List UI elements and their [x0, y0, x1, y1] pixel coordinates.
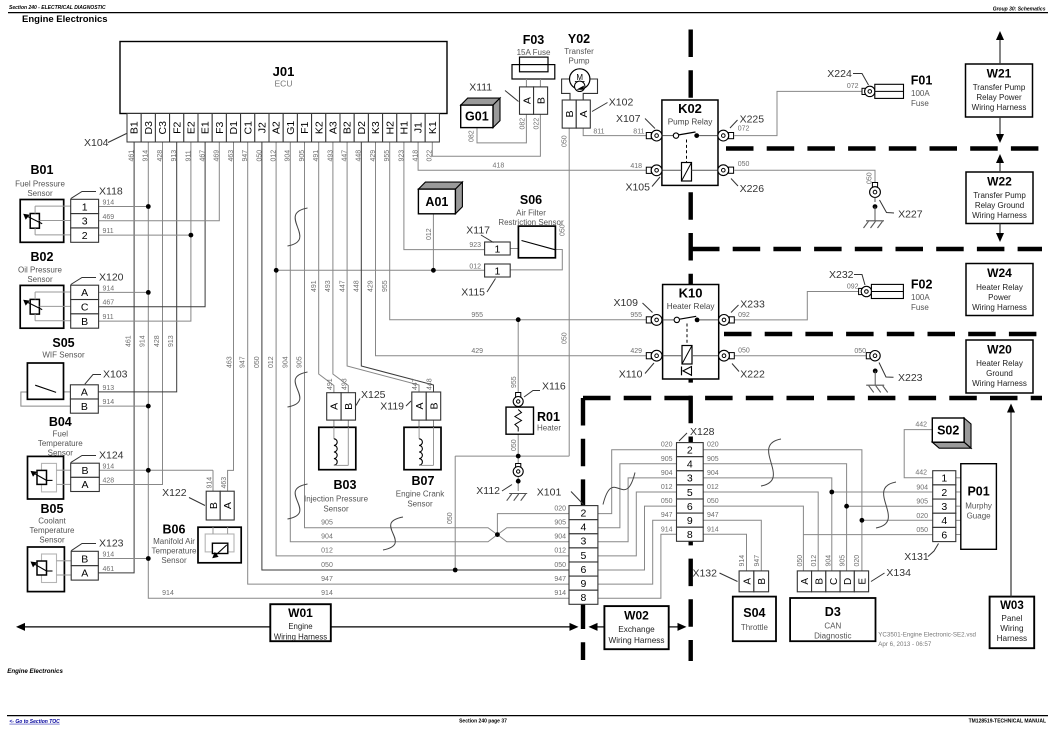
svg-text:905: 905 — [840, 555, 847, 567]
svg-text:B1: B1 — [129, 121, 141, 134]
harness boundary dashed line (vertical, exchange/panel) — [581, 398, 585, 660]
svg-text:X132: X132 — [692, 568, 717, 580]
twisted-pair mark (904/905 columns lower) — [288, 484, 308, 519]
label X225 — [730, 114, 764, 129]
ring terminal X110 — [646, 350, 662, 361]
wire 082 (G01 to X111.A) — [477, 114, 526, 143]
coolant temperature sensor B05 — [28, 547, 72, 592]
label X101 — [537, 487, 584, 505]
svg-text:491: 491 — [313, 150, 320, 162]
svg-text:Transfer Pump: Transfer Pump — [973, 83, 1026, 92]
svg-text:Heater Relay: Heater Relay — [976, 359, 1023, 368]
connector X120 — [71, 285, 99, 328]
svg-text:B: B — [81, 401, 88, 413]
label R01 — [537, 410, 561, 433]
wire labels at X123 — [103, 552, 115, 573]
wire labels at X122 — [207, 477, 229, 489]
svg-text:B04: B04 — [49, 415, 72, 429]
svg-text:X227: X227 — [898, 209, 923, 221]
svg-text:G1: G1 — [285, 121, 297, 135]
connector X118 — [71, 199, 99, 242]
fuse F03 — [512, 33, 555, 87]
svg-text:X224: X224 — [827, 68, 852, 80]
svg-text:050: 050 — [738, 161, 750, 168]
label X110 — [619, 363, 654, 381]
wire 469 (ECU F3 to X118.3) — [99, 142, 220, 221]
svg-text:050: 050 — [562, 135, 569, 147]
svg-text:Sensor: Sensor — [39, 536, 65, 545]
svg-text:E: E — [857, 578, 868, 585]
svg-text:A: A — [81, 479, 88, 491]
connector X101 — [569, 506, 598, 605]
svg-text:914: 914 — [162, 590, 174, 597]
label X226 — [731, 179, 764, 196]
svg-text:022: 022 — [427, 150, 434, 162]
transfer pump Y02 — [562, 69, 598, 100]
svg-text:S05: S05 — [52, 336, 74, 350]
svg-text:Throttle: Throttle — [741, 623, 769, 632]
svg-text:905: 905 — [321, 520, 333, 527]
wire 012 (A01 drop) — [432, 214, 434, 270]
wire label 050 (X102.B) — [562, 135, 569, 344]
twisted-pair mark (904/905 columns mid) — [288, 372, 308, 407]
svg-text:Exchange: Exchange — [618, 625, 655, 634]
svg-text:461: 461 — [126, 335, 133, 347]
svg-text:X122: X122 — [162, 487, 187, 499]
module G01 — [461, 98, 500, 128]
svg-text:5: 5 — [581, 550, 587, 562]
connector X128 — [677, 443, 704, 542]
wire label 092 (X232) — [847, 283, 859, 290]
twisted-pair mark (X128 to gauge upper) — [761, 439, 781, 486]
wire labels bottom bus — [321, 520, 333, 598]
heater R01 — [506, 407, 534, 434]
pump relay K02 — [662, 100, 718, 185]
ring terminal X109 — [646, 315, 662, 326]
svg-text:Heater Relay: Heater Relay — [667, 302, 716, 311]
svg-text:S04: S04 — [743, 606, 765, 620]
connector X125 — [327, 393, 356, 420]
svg-text:3: 3 — [581, 536, 587, 548]
svg-text:012: 012 — [661, 484, 673, 491]
svg-text:947: 947 — [242, 150, 249, 162]
wire 448 (ECU D2 to X119.B) — [361, 142, 433, 392]
svg-text:F03: F03 — [523, 33, 545, 47]
svg-text:A: A — [742, 578, 753, 585]
svg-text:904: 904 — [554, 534, 566, 541]
wire label 050 (X226) — [738, 161, 750, 168]
svg-text:461: 461 — [129, 150, 136, 162]
svg-text:X110: X110 — [619, 369, 643, 381]
svg-text:X117: X117 — [466, 225, 490, 237]
ring terminal X223 — [866, 351, 880, 361]
wire 442 (S02 to P01.1) — [904, 430, 933, 478]
wire label 955 (run) — [471, 312, 483, 319]
ring terminal X116 — [513, 393, 523, 407]
svg-text:914: 914 — [661, 526, 673, 533]
wire 428 (ECU C3 to X124.A) — [99, 142, 162, 485]
svg-text:B: B — [81, 465, 88, 477]
harness boundary dashed line (horizontal, pump relay power) — [726, 146, 1042, 150]
svg-text:012: 012 — [426, 228, 433, 240]
svg-text:911: 911 — [103, 228, 114, 235]
label X128 — [679, 426, 715, 441]
svg-text:Wiring Harness: Wiring Harness — [972, 103, 1027, 112]
wire label 418 (K02) — [630, 163, 642, 170]
svg-text:092: 092 — [847, 283, 859, 290]
svg-text:082: 082 — [469, 130, 476, 142]
svg-text:B: B — [757, 578, 768, 585]
svg-text:B07: B07 — [412, 474, 435, 488]
svg-text:G01: G01 — [465, 110, 489, 124]
wire labels at P01 — [916, 485, 928, 535]
svg-text:Fuse: Fuse — [911, 99, 929, 108]
svg-text:914: 914 — [207, 477, 214, 489]
wire label 955 (R01 feed) — [511, 376, 518, 388]
svg-text:Wiring Harness: Wiring Harness — [972, 379, 1027, 388]
svg-text:YC3501-Engine Electronic-SE2.v: YC3501-Engine Electronic-SE2.vsd — [878, 632, 976, 639]
wire labels at X128 left — [661, 442, 673, 534]
oil pressure sensor B02 — [20, 285, 70, 328]
svg-text:467: 467 — [200, 150, 207, 162]
wire stub X117 to S06 — [510, 248, 518, 250]
svg-text:050: 050 — [554, 562, 566, 569]
svg-text:418: 418 — [413, 150, 420, 162]
svg-text:100A: 100A — [911, 293, 930, 302]
label B02 — [18, 250, 63, 284]
svg-text:463: 463 — [227, 356, 234, 368]
fuel temperature sensor B04 — [28, 456, 71, 499]
wire label 082 (G01) — [469, 130, 476, 142]
label S05 — [42, 336, 85, 360]
twisted-pair mark (X101-X128 risers) — [603, 473, 635, 505]
ground X223 — [866, 385, 888, 392]
svg-text:914: 914 — [140, 335, 147, 347]
wire labels at X134 — [797, 555, 861, 567]
label X224 — [827, 68, 868, 85]
svg-text:X116: X116 — [542, 381, 566, 393]
WIF sensor S05 — [27, 363, 63, 399]
svg-text:914: 914 — [554, 590, 566, 597]
wire X227 drop — [874, 198, 876, 221]
svg-text:J01: J01 — [273, 64, 295, 79]
svg-text:914: 914 — [143, 150, 150, 162]
ring terminal X222 — [719, 350, 735, 361]
svg-text:C: C — [81, 301, 89, 313]
svg-text:X112: X112 — [476, 485, 500, 497]
wire 467 (ECU E1 to X120.C) — [99, 142, 206, 307]
harness box W24 — [966, 264, 1033, 316]
svg-text:<- Go to Section TOC: <- Go to Section TOC — [9, 719, 60, 725]
svg-text:020: 020 — [554, 505, 566, 512]
svg-text:461: 461 — [103, 566, 115, 573]
svg-text:Wiring Harness: Wiring Harness — [274, 633, 327, 642]
svg-text:914: 914 — [103, 399, 115, 406]
svg-text:8: 8 — [581, 592, 587, 604]
ring terminal X112 — [513, 464, 523, 477]
svg-text:905: 905 — [554, 520, 566, 527]
svg-text:092: 092 — [738, 312, 750, 319]
svg-text:914: 914 — [103, 285, 115, 292]
svg-text:Coolant: Coolant — [38, 517, 66, 526]
svg-text:923: 923 — [398, 150, 405, 162]
svg-text:947: 947 — [240, 356, 247, 368]
wire 022 (ECU K1 to X111.B) — [432, 114, 540, 156]
label X131 — [904, 544, 938, 564]
wire label 050 (X223) — [854, 348, 866, 355]
svg-text:CAN: CAN — [824, 622, 841, 631]
page header — [8, 5, 1048, 25]
svg-text:811: 811 — [593, 129, 604, 136]
svg-text:913: 913 — [168, 335, 175, 347]
svg-text:Engine Electronics: Engine Electronics — [22, 14, 108, 25]
svg-text:904: 904 — [661, 470, 673, 477]
svg-text:904: 904 — [282, 356, 289, 368]
svg-text:429: 429 — [370, 150, 377, 162]
harness arrow W21 up — [996, 31, 1004, 64]
connector X132 — [739, 571, 769, 592]
svg-text:B05: B05 — [41, 502, 64, 516]
svg-text:947: 947 — [554, 576, 566, 583]
svg-text:491: 491 — [311, 280, 318, 292]
svg-text:050: 050 — [707, 498, 719, 505]
svg-text:X123: X123 — [99, 538, 124, 550]
ring terminal X107 — [646, 130, 662, 141]
svg-text:6: 6 — [687, 501, 693, 513]
wire labels at X119 — [412, 378, 433, 390]
svg-text:469: 469 — [103, 214, 115, 221]
svg-text:Fuel Pressure: Fuel Pressure — [15, 180, 65, 189]
label X227 — [880, 200, 923, 221]
label S06 — [498, 193, 564, 227]
connector X131 pin stack — [933, 471, 956, 542]
drawing source note — [878, 632, 976, 648]
throttle S04 — [733, 597, 776, 642]
svg-text:050: 050 — [560, 224, 567, 236]
wire 904 (ECU G1 to X101 pin 3) — [290, 142, 569, 542]
svg-text:X111: X111 — [469, 82, 492, 94]
harness box W21 — [966, 64, 1033, 117]
svg-text:A: A — [81, 387, 88, 399]
wire column labels (463 947 050 012 904 905) — [227, 356, 304, 368]
twisted-pair mark (904/905 columns upper) — [288, 208, 308, 246]
heater relay K10 — [663, 285, 719, 380]
svg-text:X102: X102 — [609, 97, 634, 109]
svg-text:A: A — [578, 111, 590, 118]
wire S05 loop to X103.B — [21, 392, 71, 406]
wire label 442 upper — [915, 422, 927, 429]
label X103 — [85, 369, 128, 385]
svg-text:Sensor: Sensor — [323, 505, 349, 514]
wire labels at X103 — [103, 385, 115, 406]
svg-text:050: 050 — [661, 498, 673, 505]
label X118 — [71, 186, 123, 199]
twisted-pair mark (gauge feed) — [876, 482, 896, 528]
svg-text:Relay Power: Relay Power — [976, 93, 1022, 102]
svg-text:913: 913 — [171, 150, 178, 162]
wire 911 (ECU E2 to X118.2 and X120.B) — [99, 142, 191, 321]
harness arrow W02 right — [669, 623, 687, 631]
label X124 — [71, 450, 124, 463]
label X112 — [476, 485, 512, 498]
ECU J01 — [120, 42, 447, 143]
wire 955 (branch to heater X116) — [517, 320, 519, 393]
module S02 — [932, 418, 971, 448]
svg-text:050: 050 — [256, 150, 263, 162]
wire labels at X101 left — [554, 505, 566, 597]
svg-text:A: A — [800, 578, 811, 585]
svg-text:448: 448 — [356, 150, 363, 162]
module A01 — [418, 182, 462, 214]
fuse F02 — [859, 278, 933, 313]
svg-text:Wiring: Wiring — [1000, 624, 1024, 633]
svg-text:448: 448 — [354, 280, 361, 292]
harness box W02 — [604, 606, 668, 649]
svg-text:D2: D2 — [356, 121, 368, 135]
svg-text:3: 3 — [687, 473, 693, 485]
svg-text:X222: X222 — [740, 369, 765, 381]
svg-text:2: 2 — [687, 444, 693, 456]
wire 050 (X222 to ground X223) — [734, 355, 866, 357]
wire 092 (X233 to fuse F02 via X232) — [734, 292, 858, 320]
label X125 — [356, 389, 386, 406]
svg-text:914: 914 — [103, 552, 115, 559]
wire 050 (ECU J2 to X101 pin 6) — [262, 142, 569, 570]
label X132 — [692, 568, 737, 582]
svg-text:Sensor: Sensor — [27, 275, 53, 284]
label X109 — [613, 297, 652, 313]
svg-text:Temperature: Temperature — [30, 526, 75, 535]
svg-text:Pump: Pump — [569, 57, 590, 66]
svg-text:020: 020 — [854, 555, 861, 567]
svg-text:Engine: Engine — [288, 622, 312, 631]
wire 905 (X128.4 to P01.3 and X134.D) — [703, 464, 933, 571]
svg-text:463: 463 — [228, 150, 235, 162]
svg-text:A: A — [521, 97, 533, 104]
svg-text:X104: X104 — [84, 137, 109, 149]
connector X124 — [71, 463, 100, 491]
label X134 — [871, 567, 911, 582]
svg-text:050: 050 — [738, 348, 750, 355]
svg-text:428: 428 — [157, 150, 164, 162]
harness boundary dashed line (horizontal, panel) — [583, 396, 1042, 400]
ring terminal X225 — [718, 130, 734, 141]
harness boundary dashed line (horizontal, pump relay ground) — [692, 247, 1042, 251]
connector X119 — [412, 392, 441, 420]
svg-text:Group 30: Schematics: Group 30: Schematics — [993, 7, 1046, 13]
wire 020 (X128.2 to P01.4 and X134.E) — [703, 450, 933, 571]
wire labels at X118 — [103, 200, 115, 236]
manifold air temperature sensor B06 — [198, 527, 241, 563]
label X107 — [616, 113, 655, 129]
svg-text:J2: J2 — [257, 122, 269, 133]
svg-text:F1: F1 — [299, 121, 311, 133]
wire 955 (ECU H2 to relay terminal X109) — [390, 142, 647, 320]
svg-text:P01: P01 — [967, 485, 989, 499]
ground X112 — [507, 494, 528, 501]
svg-text:2: 2 — [82, 230, 88, 242]
svg-text:A: A — [81, 568, 88, 580]
svg-text:Transfer: Transfer — [564, 47, 594, 56]
svg-text:F01: F01 — [911, 74, 933, 88]
svg-text:050: 050 — [562, 332, 569, 344]
svg-text:955: 955 — [384, 150, 391, 162]
svg-text:X233: X233 — [740, 299, 765, 311]
page footer — [7, 668, 1048, 725]
wire 904 (X128.3 to P01.2 and X134.C) — [703, 478, 933, 571]
svg-text:K02: K02 — [678, 101, 702, 116]
ring terminal X233 — [719, 315, 735, 326]
svg-text:447: 447 — [412, 378, 419, 390]
label X111 — [469, 82, 518, 102]
svg-text:050: 050 — [797, 555, 804, 567]
svg-text:012: 012 — [321, 548, 333, 555]
svg-text:K2: K2 — [313, 121, 325, 134]
wire label 418 — [493, 162, 505, 169]
svg-text:Heater Relay: Heater Relay — [976, 283, 1023, 292]
svg-text:012: 012 — [469, 263, 481, 270]
svg-text:012: 012 — [811, 555, 818, 567]
label X119 — [380, 401, 411, 413]
svg-text:X226: X226 — [740, 183, 765, 195]
svg-text:W03: W03 — [1000, 600, 1024, 612]
svg-text:493: 493 — [325, 280, 332, 292]
svg-text:418: 418 — [630, 163, 642, 170]
svg-text:X118: X118 — [99, 186, 123, 198]
svg-text:X131: X131 — [904, 551, 929, 563]
wire 905 (ECU F1 to X101 pin 4) — [305, 142, 570, 535]
svg-text:050: 050 — [916, 527, 928, 534]
svg-text:C1: C1 — [242, 121, 254, 135]
svg-text:Temperature: Temperature — [38, 439, 83, 448]
svg-text:8: 8 — [687, 529, 693, 541]
svg-text:W01: W01 — [288, 606, 313, 620]
label X120 — [71, 272, 124, 285]
wire column labels (491 493 447 448 429 955) — [311, 280, 389, 292]
svg-text:H1: H1 — [399, 121, 411, 135]
svg-text:15A Fuse: 15A Fuse — [517, 48, 551, 57]
svg-text:955: 955 — [511, 376, 518, 388]
harness arrow W22 down — [996, 224, 1004, 243]
wire bundle X101 to X128 (pins 2,4,3,5,6,9,8) — [598, 450, 677, 599]
wire column labels (461 914 428 913) — [126, 335, 176, 347]
svg-text:W02: W02 — [624, 609, 649, 623]
wire 447 (ECU B2 to X119.A) — [347, 142, 419, 392]
ring terminal X227 — [870, 183, 881, 198]
svg-text:3: 3 — [941, 501, 947, 513]
harness arrow W01 right — [331, 623, 579, 631]
svg-text:A: A — [222, 502, 234, 509]
svg-text:Injection Pressure: Injection Pressure — [304, 495, 369, 504]
svg-text:X225: X225 — [740, 114, 765, 126]
svg-text:WIF Sensor: WIF Sensor — [42, 351, 85, 360]
svg-text:B01: B01 — [31, 163, 54, 177]
svg-text:B: B — [81, 553, 88, 565]
junction dot X112 — [516, 479, 521, 484]
svg-text:J1: J1 — [413, 122, 425, 133]
wire 050 (junction drop to bus) — [454, 456, 456, 570]
connector X122 — [206, 491, 234, 520]
gauge P01 — [961, 464, 997, 550]
svg-text:TM128519-TECHNICAL MANUAL: TM128519-TECHNICAL MANUAL — [969, 718, 1046, 724]
svg-text:Guage: Guage — [967, 512, 992, 521]
connector X104 label — [84, 134, 127, 150]
wire labels at X125 — [327, 378, 348, 390]
ground X227 — [864, 221, 885, 228]
wire label 923 — [469, 242, 481, 249]
svg-text:Sensor: Sensor — [407, 500, 433, 509]
svg-text:072: 072 — [847, 83, 859, 90]
